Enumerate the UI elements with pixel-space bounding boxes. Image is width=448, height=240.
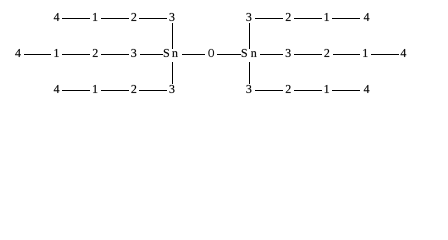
bond Sn1 to bottom-left C3 (vertical): [172, 62, 173, 84]
atom C3 of middle-right butyl chain: [286, 49, 291, 57]
atom C1 of bottom-left butyl chain: [93, 85, 97, 93]
bond C2-C3 middle-left: [101, 54, 129, 55]
bond C2-C1 middle-right: [333, 54, 360, 55]
atom C4 of top-right butyl chain: [364, 13, 370, 21]
atom C4 of bottom-right butyl chain: [364, 85, 370, 93]
bond Sn2-C3 middle-right: [260, 54, 283, 55]
atom C1 of middle-right butyl chain: [363, 49, 367, 57]
atom C3 of bottom-right butyl chain: [246, 85, 251, 93]
bond C1-C2 bottom-left: [101, 90, 129, 91]
atom C2 of middle-right butyl chain: [324, 49, 329, 57]
atom C4 of bottom-left butyl chain: [54, 85, 60, 93]
bond C2-C3 bottom-left: [139, 90, 167, 91]
bond C4-C1 top-left: [62, 18, 90, 19]
bond Sn1-O: [182, 54, 205, 55]
atom C2 of top-left butyl chain: [131, 13, 136, 21]
bond C3-C2 top-right: [255, 18, 283, 19]
bond Sn2 to top-right C3 (vertical): [249, 23, 250, 49]
bond O-Sn2: [217, 54, 241, 55]
atom C4 of middle-right butyl chain: [401, 49, 407, 57]
bond Sn2 to bottom-right C3 (vertical): [249, 62, 250, 84]
atom C1 of bottom-right butyl chain: [325, 85, 329, 93]
atom Sn2 tin, letter n: [251, 51, 257, 57]
bond C2-C1 bottom-right: [294, 90, 322, 91]
bond C1-C4 middle-right: [371, 54, 399, 55]
atom C3 of middle-left butyl chain: [131, 49, 136, 57]
atom C2 of bottom-left butyl chain: [131, 85, 136, 93]
atom C4 of middle-left butyl chain: [15, 49, 21, 57]
bond C1-C4 bottom-right: [332, 90, 360, 91]
bond C3-C2 middle-right: [294, 54, 322, 55]
atom C1 of top-right butyl chain: [325, 13, 329, 21]
atom C2 of bottom-right butyl chain: [286, 85, 291, 93]
chemical structure: bis(tributyltin) oxide skeleton: [0, 0, 448, 109]
bond C4-C1 bottom-left: [62, 90, 90, 91]
bond C3-Sn1: [140, 54, 163, 55]
atom C3 of bottom-left butyl chain: [170, 85, 175, 93]
bond Sn1 to top-left C3 (vertical): [172, 23, 173, 49]
atom C2 of top-right butyl chain: [286, 13, 291, 21]
atom C3 of top-left butyl chain: [170, 13, 175, 21]
bond C1-C2 top-left: [101, 18, 129, 19]
atom Sn1 tin, letter S: [164, 49, 169, 57]
atom Sn2 tin, letter S: [242, 49, 247, 57]
atom C1 of middle-left butyl chain: [54, 49, 58, 57]
atom C3 of top-right butyl chain: [246, 13, 251, 21]
bond C1-C2 middle-left: [62, 54, 90, 55]
atom C2 of middle-left butyl chain: [93, 49, 98, 57]
bond C2-C3 top-left: [139, 18, 167, 19]
bond C3-C2 bottom-right: [255, 90, 283, 91]
bond C2-C1 top-right: [294, 18, 322, 19]
atom C4 of top-left butyl chain: [54, 13, 60, 21]
bond C4-C1 middle-left: [24, 54, 51, 55]
bond C1-C4 top-right: [332, 18, 360, 19]
atom C1 of top-left butyl chain: [93, 13, 97, 21]
atom Sn1 tin, letter n: [172, 51, 178, 57]
atom O bridging oxygen: [208, 49, 214, 57]
